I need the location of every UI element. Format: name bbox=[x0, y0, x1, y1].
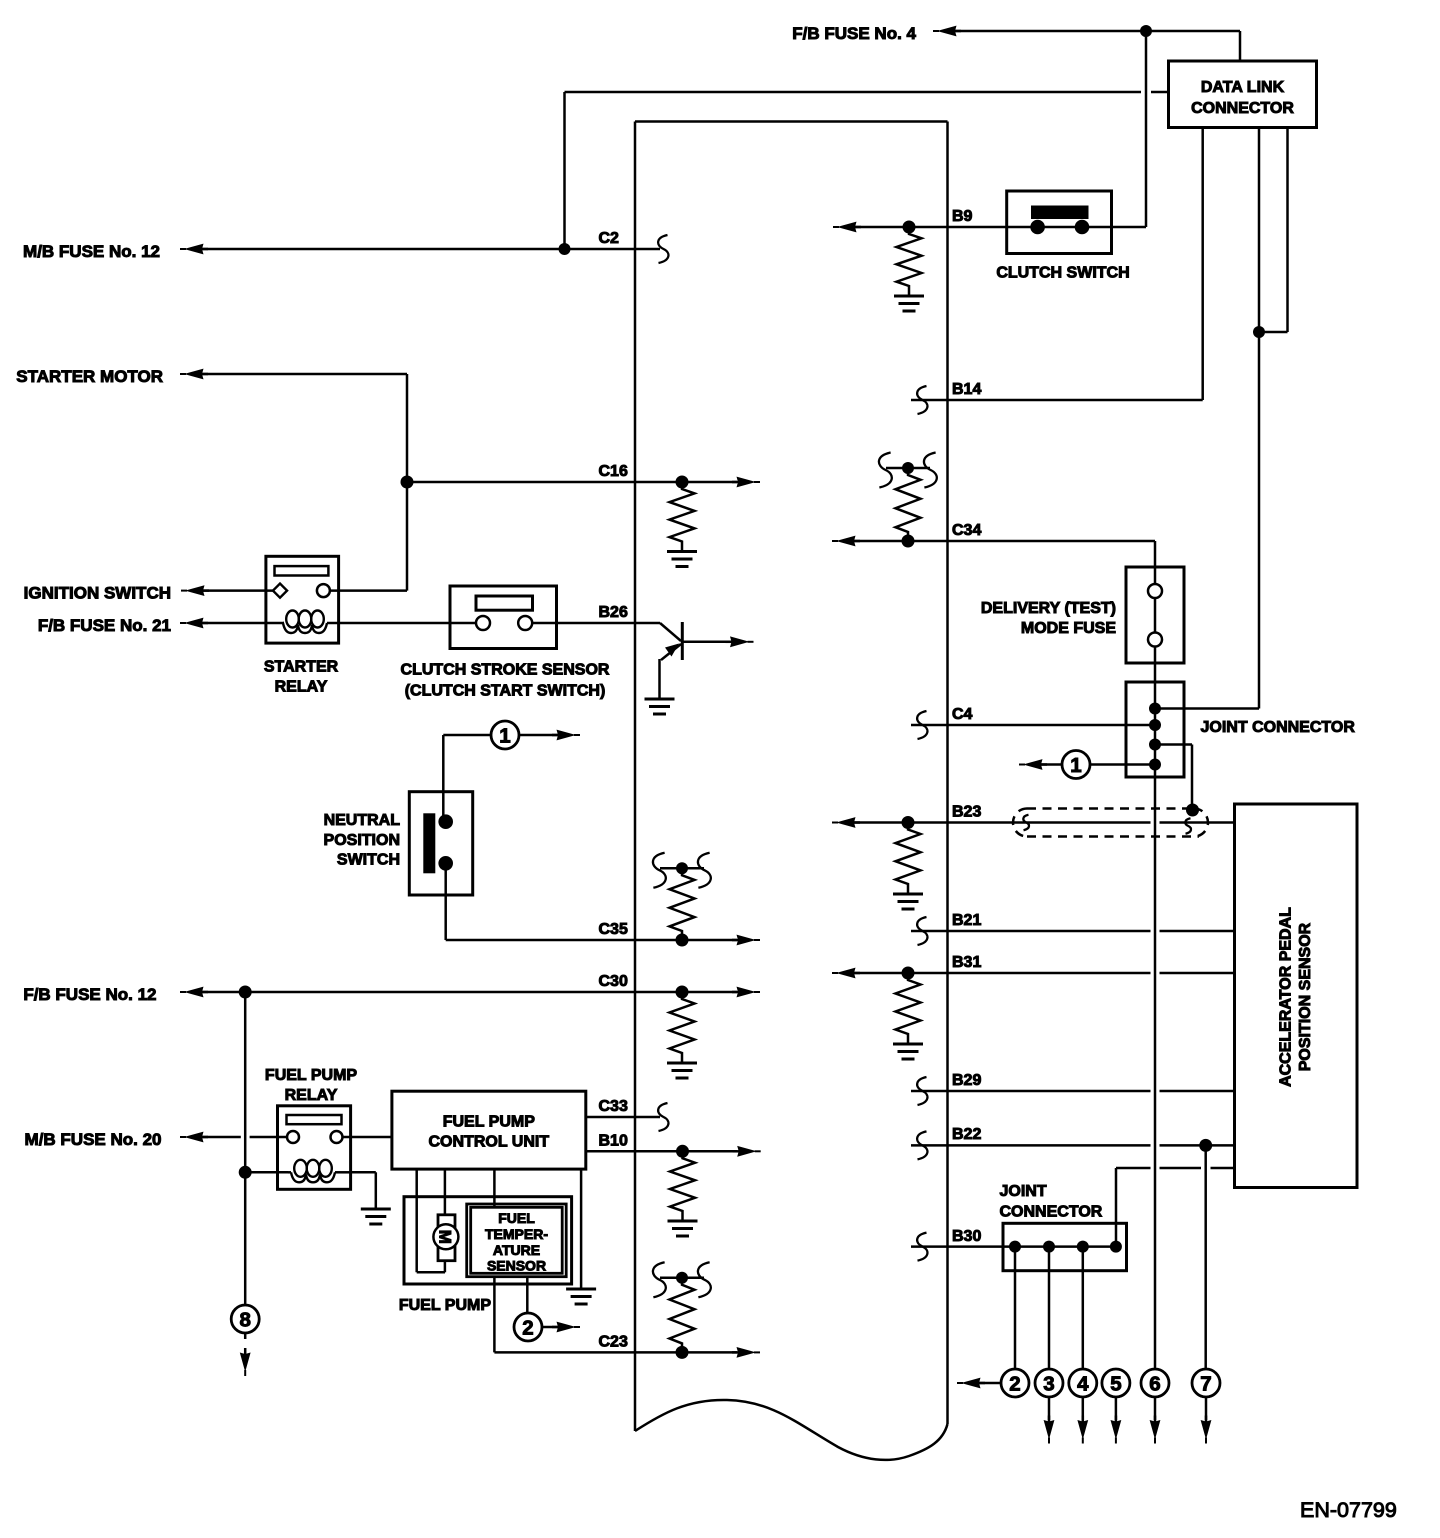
svg-text:F/B FUSE No. 4: F/B FUSE No. 4 bbox=[792, 24, 916, 43]
svg-text:5: 5 bbox=[1110, 1373, 1121, 1396]
svg-text:M: M bbox=[435, 1230, 454, 1244]
svg-text:NEUTRAL: NEUTRAL bbox=[324, 812, 401, 829]
svg-text:C30: C30 bbox=[599, 973, 628, 990]
svg-text:2: 2 bbox=[1009, 1373, 1020, 1396]
svg-text:EN-07799: EN-07799 bbox=[1300, 1498, 1397, 1522]
svg-text:B30: B30 bbox=[952, 1228, 981, 1245]
svg-text:CONNECTOR: CONNECTOR bbox=[1000, 1204, 1103, 1221]
svg-text:M/B FUSE No. 12: M/B FUSE No. 12 bbox=[23, 242, 160, 261]
svg-text:B10: B10 bbox=[599, 1132, 628, 1149]
svg-text:SWITCH: SWITCH bbox=[337, 852, 400, 869]
svg-text:2: 2 bbox=[522, 1317, 533, 1340]
svg-text:F/B FUSE No. 21: F/B FUSE No. 21 bbox=[38, 616, 171, 635]
svg-text:4: 4 bbox=[1077, 1373, 1089, 1396]
svg-text:POSITION SENSOR: POSITION SENSOR bbox=[1297, 922, 1314, 1071]
svg-text:B21: B21 bbox=[952, 912, 981, 929]
svg-text:DATA LINK: DATA LINK bbox=[1201, 79, 1285, 96]
svg-text:C16: C16 bbox=[599, 463, 628, 480]
svg-text:IGNITION SWITCH: IGNITION SWITCH bbox=[24, 584, 171, 603]
svg-text:B23: B23 bbox=[952, 804, 981, 821]
svg-text:6: 6 bbox=[1149, 1373, 1160, 1396]
svg-text:CLUTCH SWITCH: CLUTCH SWITCH bbox=[996, 265, 1129, 282]
svg-text:STARTER MOTOR: STARTER MOTOR bbox=[16, 367, 163, 386]
svg-text:C4: C4 bbox=[952, 706, 973, 723]
svg-text:C2: C2 bbox=[599, 230, 620, 247]
svg-text:B29: B29 bbox=[952, 1072, 981, 1089]
svg-text:POSITION: POSITION bbox=[324, 832, 400, 849]
svg-text:CONTROL UNIT: CONTROL UNIT bbox=[429, 1134, 550, 1151]
svg-text:B9: B9 bbox=[952, 208, 973, 225]
svg-text:STARTER: STARTER bbox=[264, 659, 339, 676]
svg-text:CLUTCH STROKE SENSOR: CLUTCH STROKE SENSOR bbox=[401, 662, 610, 679]
svg-text:M/B FUSE No. 20: M/B FUSE No. 20 bbox=[25, 1130, 162, 1149]
svg-text:1: 1 bbox=[499, 725, 510, 748]
svg-text:DELIVERY (TEST): DELIVERY (TEST) bbox=[981, 600, 1116, 617]
svg-text:C35: C35 bbox=[599, 921, 628, 938]
svg-text:F/B FUSE No. 12: F/B FUSE No. 12 bbox=[23, 985, 156, 1004]
svg-text:B14: B14 bbox=[952, 381, 981, 398]
svg-text:C33: C33 bbox=[599, 1098, 628, 1115]
svg-text:FUEL PUMP: FUEL PUMP bbox=[265, 1067, 357, 1084]
svg-text:RELAY: RELAY bbox=[275, 679, 328, 696]
svg-text:FUEL: FUEL bbox=[498, 1210, 535, 1226]
svg-text:B31: B31 bbox=[952, 954, 981, 971]
svg-text:C23: C23 bbox=[599, 1333, 628, 1350]
svg-text:B26: B26 bbox=[599, 604, 628, 621]
svg-text:C34: C34 bbox=[952, 522, 981, 539]
svg-text:ACCELERATOR PEDAL: ACCELERATOR PEDAL bbox=[1278, 907, 1295, 1087]
svg-text:1: 1 bbox=[1070, 754, 1081, 777]
svg-text:TEMPER-: TEMPER- bbox=[485, 1226, 548, 1242]
svg-text:RELAY: RELAY bbox=[285, 1087, 338, 1104]
svg-text:JOINT CONNECTOR: JOINT CONNECTOR bbox=[1201, 719, 1356, 736]
svg-text:3: 3 bbox=[1043, 1373, 1054, 1396]
svg-text:7: 7 bbox=[1200, 1373, 1211, 1396]
svg-text:CONNECTOR: CONNECTOR bbox=[1191, 100, 1294, 117]
svg-text:ATURE: ATURE bbox=[493, 1242, 540, 1258]
svg-text:8: 8 bbox=[239, 1309, 250, 1332]
svg-text:JOINT: JOINT bbox=[1000, 1183, 1047, 1200]
svg-text:B22: B22 bbox=[952, 1126, 981, 1143]
svg-text:SENSOR: SENSOR bbox=[487, 1258, 546, 1274]
svg-text:FUEL PUMP: FUEL PUMP bbox=[399, 1297, 491, 1314]
svg-text:FUEL PUMP: FUEL PUMP bbox=[443, 1114, 535, 1131]
svg-text:MODE FUSE: MODE FUSE bbox=[1021, 620, 1116, 637]
svg-text:(CLUTCH START SWITCH): (CLUTCH START SWITCH) bbox=[405, 683, 606, 700]
